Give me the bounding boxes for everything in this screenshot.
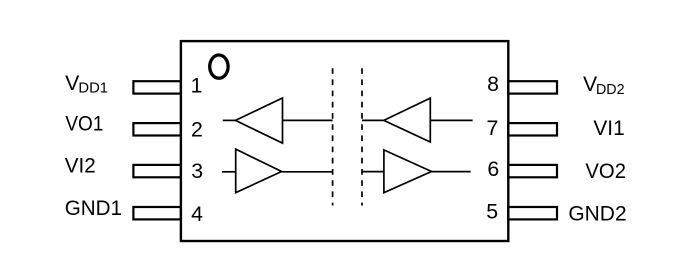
- pin 8 stub: [508, 81, 557, 93]
- svg-text:5: 5: [486, 200, 498, 224]
- buffer B4 channel2 output (points right): [384, 150, 432, 193]
- svg-text:DD1: DD1: [78, 79, 108, 96]
- pin 6 stub: [508, 165, 557, 177]
- pin 5 stub: [508, 207, 557, 219]
- isolation barrier dashed line right: [361, 68, 363, 205]
- pin 7 stub: [508, 123, 557, 135]
- wire B1 output to pin2 side: [223, 119, 236, 121]
- wire B3 base to pin7 side: [430, 119, 472, 121]
- wire B4 input from right barrier: [362, 171, 384, 173]
- svg-text:6: 6: [487, 157, 499, 181]
- isolation barrier dashed line left: [332, 68, 334, 205]
- svg-text:1: 1: [191, 74, 203, 98]
- pin 1 indicator circle: [210, 55, 228, 78]
- svg-text:DD2: DD2: [596, 81, 625, 98]
- wire B3 tip to right barrier: [362, 119, 384, 121]
- wire B1 input to left barrier: [283, 119, 333, 121]
- buffer B2 channel2 input (points right): [236, 149, 282, 193]
- pin 2 stub: [133, 123, 181, 135]
- wire B2 input from pin3 side: [222, 171, 236, 173]
- wire B4 output to pin6 side: [432, 171, 471, 173]
- pin 1 stub: [133, 81, 181, 93]
- svg-text:VI2: VI2: [65, 154, 96, 178]
- svg-text:GND2: GND2: [568, 202, 626, 226]
- svg-text:4: 4: [191, 202, 203, 226]
- svg-text:VO1: VO1: [65, 111, 103, 135]
- wire B2 output to left barrier: [282, 171, 333, 173]
- IC package U1 body: [181, 41, 508, 241]
- svg-text:VO2: VO2: [585, 159, 626, 183]
- pin 4 stub: [133, 207, 181, 219]
- svg-text:GND1: GND1: [65, 196, 122, 220]
- svg-text:VI1: VI1: [593, 116, 624, 140]
- svg-text:7: 7: [486, 116, 498, 140]
- svg-text:3: 3: [191, 159, 203, 183]
- svg-text:8: 8: [487, 72, 499, 96]
- buffer B1 channel1 output (points left): [236, 98, 283, 143]
- buffer B3 channel1 input (points left): [384, 98, 431, 142]
- pin 3 stub: [133, 165, 181, 177]
- svg-text:2: 2: [191, 118, 203, 142]
